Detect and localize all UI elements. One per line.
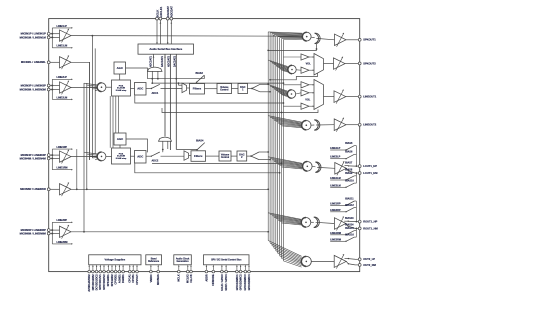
mix bus bundle	[267, 32, 269, 241]
row5 mixer	[268, 157, 302, 164]
block DAC2	[237, 151, 247, 161]
svg-text:BIAS7: BIAS7	[345, 161, 353, 164]
svg-text:DGND1: DGND1	[122, 274, 125, 283]
pin AVDD1/AVDD2	[88, 265, 90, 271]
input PGA amp IN2	[50, 61, 59, 63]
svg-text:LINE1LM: LINE1LM	[330, 177, 340, 180]
wire digital cross 1	[152, 82, 283, 84]
pin CPCA1	[129, 265, 131, 271]
svg-text:DACDAT2: DACDAT2	[173, 55, 176, 67]
pin LRCLK1	[159, 17, 162, 20]
left bus line 4	[91, 36, 93, 158]
svg-text:MICBIAS: MICBIAS	[157, 274, 160, 285]
input PGA amp IN4	[50, 154, 59, 156]
svg-text:MICIN6P / LINEIN6P: MICIN6P / LINEIN6P	[21, 228, 46, 232]
svg-text:BIAS6: BIAS6	[345, 151, 353, 154]
block Filters1	[190, 84, 205, 95]
svg-text:0.5dB step: 0.5dB step	[116, 157, 127, 160]
input pin IN5	[47, 188, 50, 191]
pin MICBIAS	[157, 265, 159, 271]
svg-text:Voltage Supplies: Voltage Supplies	[104, 258, 125, 262]
block ADC1	[135, 83, 147, 96]
svg-text:BIAS8: BIAS8	[345, 168, 353, 171]
output driver row4	[334, 119, 346, 131]
svg-text:Control: Control	[221, 156, 230, 159]
bypass collector top row5	[355, 146, 357, 167]
svg-text:BIAS4: BIAS4	[196, 140, 204, 143]
output driver row6	[334, 218, 346, 230]
svg-text:Control: Control	[220, 89, 229, 92]
block Volume Control 2	[219, 151, 231, 161]
pin ADDR	[205, 265, 207, 271]
svg-text:LINE2LM: LINE2LM	[330, 184, 340, 187]
playback mux 2	[184, 151, 189, 161]
svg-text:0.5dB step: 0.5dB step	[116, 89, 127, 92]
svg-text:GPIO1/DMIC1: GPIO1/DMIC1	[236, 274, 239, 291]
pin GPIO1/DMIC1	[236, 265, 238, 271]
svg-text:LINE2RM: LINE2RM	[57, 241, 68, 244]
svg-text:LINE1LM: LINE1LM	[57, 45, 68, 48]
block U1 Audio Serial Bus Interface	[138, 44, 194, 54]
bypass collector top row6	[355, 201, 357, 222]
volume crescent row6	[314, 217, 318, 227]
svg-text:VOL: VOL	[306, 62, 312, 65]
svg-text:SPKGND1: SPKGND1	[107, 274, 110, 287]
row3 input amp c	[283, 105, 301, 107]
svg-text:ADC: ADC	[137, 155, 143, 159]
row7 mixer	[268, 241, 301, 257]
pin BCLK	[156, 17, 159, 20]
svg-text:BIAS15: BIAS15	[345, 227, 354, 230]
pin SCLK / GPIO3	[221, 265, 223, 271]
cross wires between channels	[109, 96, 111, 148]
wire AGC1 to mux	[126, 68, 148, 79]
wire bypass join vertical	[76, 149, 78, 189]
wire amp5 output	[71, 188, 268, 190]
output driver row7	[334, 255, 346, 267]
svg-text:LINEOUT1: LINEOUT1	[363, 95, 377, 99]
block SPI I2C Serial Control Bus	[204, 255, 250, 265]
svg-text:MICIN2L / LINEIN2L: MICIN2L / LINEIN2L	[21, 60, 46, 64]
svg-text:MICIN6M / LINEIN6M: MICIN6M / LINEIN6M	[20, 232, 47, 236]
output driver row5	[335, 163, 347, 175]
pin VMIDC	[150, 265, 152, 271]
svg-text:LINEOUT2: LINEOUT2	[363, 123, 377, 127]
svg-text:BCLK: BCLK	[155, 10, 159, 18]
DAC1 output switches	[248, 88, 252, 90]
svg-text:GPIO4/DMIC4: GPIO4/DMIC4	[248, 274, 251, 291]
block Filters2	[191, 151, 206, 162]
wire ADCDAT2 to interface	[164, 54, 166, 136]
switch ADC1 out	[146, 88, 151, 90]
pin CPVDD1	[115, 265, 117, 271]
svg-text:CPVOUT: CPVOUT	[136, 274, 139, 285]
svg-text:OUT2_LP: OUT2_LP	[363, 257, 375, 261]
svg-text:MICIN3M / LINEIN3M: MICIN3M / LINEIN3M	[20, 88, 47, 92]
row2 tap down	[270, 73, 317, 80]
mix bus top fan to mixer SPK1	[268, 32, 302, 33]
row4 mixer	[268, 116, 302, 123]
pin SPKVDD1/V1	[99, 265, 101, 271]
svg-text:OUT2_RM: OUT2_RM	[363, 263, 376, 267]
svg-text:SPKGND2: SPKGND2	[111, 274, 114, 287]
pin MONOOUT_P	[358, 258, 361, 261]
left bus line 3	[89, 62, 91, 160]
svg-text:BIAS16: BIAS16	[345, 234, 354, 237]
pin HPOUT_RM	[358, 227, 361, 230]
wire bypass vertical	[51, 149, 53, 170]
left bus line 5	[94, 48, 96, 154]
svg-text:LINE1RM: LINE1RM	[57, 167, 68, 170]
block Voltage Supplies	[89, 255, 141, 265]
input pins IN1	[47, 32, 50, 35]
pin MCLK2	[187, 265, 189, 271]
svg-text:ADC2: ADC2	[152, 160, 159, 163]
svg-text:LINE1RP: LINE1RP	[330, 202, 341, 205]
svg-text:BIAS10: BIAS10	[345, 180, 354, 183]
wire amp2 output	[71, 62, 90, 160]
svg-text:GPIO3/DMIC3: GPIO3/DMIC3	[244, 274, 247, 291]
wire DACDAT2 down	[175, 54, 177, 149]
svg-text:ADCDAT2: ADCDAT2	[167, 55, 170, 67]
pin MONOOUT_M	[358, 264, 361, 267]
block AGC1	[114, 62, 126, 74]
svg-text:Audio Serial Bus Interface: Audio Serial Bus Interface	[149, 47, 182, 51]
svg-text:LINE2LM: LINE2LM	[57, 96, 68, 99]
svg-text:AGND1: AGND1	[118, 274, 121, 283]
input pins IN4	[47, 154, 50, 157]
block AGC2	[114, 133, 126, 145]
svg-text:BIAS11: BIAS11	[345, 197, 354, 200]
output driver row2	[334, 58, 346, 69]
pin CPCB1	[132, 265, 134, 271]
pin LINEOUT1	[358, 95, 361, 98]
pin ADCDAT	[170, 17, 173, 20]
playback mux 1	[182, 83, 187, 93]
svg-text:LINE1RP: LINE1RP	[57, 146, 68, 149]
svg-text:MCLK: MCLK	[178, 274, 181, 281]
wire amp6 output	[71, 231, 268, 233]
output driver row3	[334, 91, 346, 103]
svg-text:VOL: VOL	[305, 99, 311, 102]
svg-text:ADC: ADC	[137, 87, 143, 91]
input pin IN2	[47, 61, 50, 64]
block PGA1	[112, 80, 131, 96]
pin CIFMODE	[212, 265, 214, 271]
pin MCLK	[178, 265, 180, 271]
svg-text:DCVDD1/DC2: DCVDD1/DC2	[96, 274, 99, 291]
svg-text:LINE2RP: LINE2RP	[57, 219, 68, 222]
output mux row2	[314, 54, 324, 76]
svg-text:SPKVDD1/V1: SPKVDD1/V1	[99, 274, 102, 290]
pin GPIO4/DMIC4	[248, 265, 250, 271]
row1 tap down	[268, 44, 316, 50]
wire digital cross 2	[152, 162, 282, 164]
svg-text:MICIN3P / LINEIN3P: MICIN3P / LINEIN3P	[21, 83, 46, 87]
svg-text:CPVDD1: CPVDD1	[115, 274, 118, 285]
svg-text:VMIDC: VMIDC	[150, 274, 153, 282]
left bus line 2	[86, 83, 88, 189]
input PGA amp IN5	[50, 188, 59, 190]
block PGA2	[112, 148, 131, 164]
input pins IN3	[47, 84, 50, 87]
svg-text:Reference: Reference	[148, 261, 160, 263]
input PGA amp IN1	[50, 33, 59, 35]
output mux row3	[314, 80, 324, 110]
svg-text:DACDAT: DACDAT	[166, 6, 170, 18]
input PGA amp IN3	[50, 85, 59, 87]
pin DGND1	[122, 265, 124, 271]
svg-text:AVDD1/AVDD2: AVDD1/AVDD2	[88, 274, 91, 292]
wire amp4 output to mixer2	[71, 156, 97, 158]
pin SPKVDD2/V2	[103, 265, 105, 271]
volume crescent row4	[314, 120, 318, 130]
svg-text:LINE2LP: LINE2LP	[57, 76, 68, 79]
input PGA amp IN6	[50, 229, 59, 231]
input mixer MIX1	[97, 83, 106, 92]
svg-text:DBVDD1/DB2: DBVDD1/DB2	[92, 274, 95, 291]
svg-text:SPKOUT1: SPKOUT1	[363, 38, 376, 42]
pin HPOUT_LM	[358, 172, 361, 175]
svg-text:MICIN1P / LINEIN1P: MICIN1P / LINEIN1P	[21, 32, 46, 36]
svg-text:ROUT1_HM: ROUT1_HM	[363, 226, 378, 230]
wire bypass vertical	[51, 222, 53, 244]
row3 input amp b	[301, 90, 309, 96]
pin HPOUT_RP	[358, 220, 361, 223]
row2 mixer	[268, 60, 288, 67]
svg-text:CIFMODE: CIFMODE	[212, 274, 215, 286]
pin LINEOUT2	[358, 123, 361, 126]
input pins IN6	[47, 229, 50, 232]
DAC2 output switches	[247, 155, 251, 157]
pin GPIO3/DMIC3	[244, 265, 246, 271]
svg-text:MICIN4M / LINEIN4M: MICIN4M / LINEIN4M	[20, 156, 47, 160]
block Band Reference	[146, 255, 162, 265]
bypass collector bottom row5	[355, 173, 357, 183]
wire digital loop 2	[162, 108, 318, 113]
row3 input amp a	[283, 84, 301, 86]
output mixer row1	[302, 32, 311, 41]
pin CPVOUT	[136, 265, 138, 271]
pin SPKGND2	[111, 265, 113, 271]
row3 mixer	[268, 85, 287, 92]
svg-text:AGC: AGC	[117, 66, 123, 70]
input mixer MIX2	[97, 152, 106, 161]
wire AGC2 to switch	[126, 139, 148, 152]
pin FLLCK	[190, 265, 192, 271]
ADC source mux dome1	[148, 67, 163, 71]
svg-text:ADCDAT: ADCDAT	[170, 6, 174, 18]
pin SDAT / GPIO4	[225, 265, 227, 271]
row2 input amp b	[301, 67, 309, 73]
wire bypass vertical	[51, 28, 53, 48]
pin DBVDD1/DB2	[92, 265, 94, 271]
svg-text:LINE2RM: LINE2RM	[330, 238, 341, 241]
svg-text:ADCDAT1: ADCDAT1	[149, 55, 152, 67]
svg-text:SCLK / GPIO3: SCLK / GPIO3	[221, 274, 224, 291]
svg-text:MICIN5R / LINEIN5R: MICIN5R / LINEIN5R	[20, 187, 46, 191]
svg-text:ROUT1_HP: ROUT1_HP	[363, 220, 377, 224]
svg-text:BIAS13: BIAS13	[345, 217, 354, 220]
svg-text:Filters: Filters	[193, 87, 202, 91]
pin SPKGND1	[107, 265, 109, 271]
svg-text:FLLCK: FLLCK	[190, 274, 193, 282]
svg-text:SPI / I2C Serial Control Bus: SPI / I2C Serial Control Bus	[211, 259, 242, 262]
wire ADCDAT1 to interface	[153, 54, 155, 67]
ADC source mux dome2	[159, 137, 172, 141]
pin DACDAT	[166, 17, 169, 20]
block Volume Control 1	[217, 84, 232, 94]
output driver row1	[335, 34, 347, 45]
pin SPKOUT2	[358, 62, 361, 65]
volume crescent row1	[315, 33, 319, 43]
svg-text:DACDAT1: DACDAT1	[161, 55, 164, 67]
svg-text:LRCLK1: LRCLK1	[159, 6, 163, 17]
svg-text:GPIO2/DMIC2: GPIO2/DMIC2	[240, 274, 243, 291]
switch ADC2 out	[146, 155, 151, 157]
pin AGND1	[118, 265, 120, 271]
svg-text:Generation: Generation	[176, 260, 189, 263]
input mixer 2 fan	[84, 152, 97, 154]
svg-text:LINE1LP: LINE1LP	[57, 25, 68, 28]
svg-text:CPCB1: CPCB1	[132, 274, 135, 283]
svg-text:SPKVDD2/V2: SPKVDD2/V2	[103, 274, 106, 290]
wire dome1 bus	[148, 78, 205, 80]
wire amp3 output to mixer1	[71, 87, 97, 89]
bypass collector bottom row6	[355, 228, 357, 237]
svg-text:BIAS12: BIAS12	[345, 204, 354, 207]
pin HPOUT_LP	[358, 165, 361, 168]
block Audio Clock Generation	[174, 255, 192, 265]
block ADC2	[135, 151, 147, 164]
svg-text:MICIN1M / LINEIN1M: MICIN1M / LINEIN1M	[20, 35, 47, 39]
left bus line 1	[83, 83, 85, 232]
svg-text:ADDR: ADDR	[205, 274, 208, 281]
svg-text:BIAS5: BIAS5	[345, 142, 353, 145]
svg-text:MICIN4P / LINEIN4P: MICIN4P / LINEIN4P	[21, 153, 46, 157]
svg-text:LINE2LP: LINE2LP	[330, 156, 340, 159]
wire bypass vertical	[51, 79, 53, 99]
svg-text:LINE2RP: LINE2RP	[330, 209, 341, 212]
pin SPKOUT1	[358, 38, 361, 41]
wire amp1 output to record bundle	[71, 35, 302, 38]
chip boundary box	[49, 19, 360, 272]
svg-text:ADC1: ADC1	[152, 92, 159, 95]
svg-text:BIAS2: BIAS2	[196, 72, 204, 75]
svg-text:SDAT / GPIO4: SDAT / GPIO4	[225, 274, 228, 291]
wire DACDAT1 down	[169, 54, 171, 150]
volume crescent row5	[315, 162, 319, 172]
svg-text:Filters: Filters	[194, 154, 203, 158]
pin DCVDD1/DC2	[96, 265, 98, 271]
wire ADC2 loop	[135, 163, 280, 173]
block DAC1	[238, 84, 248, 94]
svg-text:LOUT1_HP: LOUT1_HP	[363, 164, 377, 168]
svg-text:AGC: AGC	[117, 137, 123, 141]
svg-text:SPKOUT2: SPKOUT2	[363, 61, 376, 65]
row6 mixer	[268, 213, 301, 220]
svg-text:LINE1LP: LINE1LP	[330, 147, 340, 150]
row2 input amp a	[283, 56, 301, 58]
pin GPIO2/DMIC2	[240, 265, 242, 271]
input mixer 1 fan	[84, 83, 97, 85]
wire ADC1 loop	[135, 96, 284, 104]
svg-text:LINE1RM: LINE1RM	[330, 232, 341, 235]
svg-text:LOUT1_HM: LOUT1_HM	[363, 171, 378, 175]
svg-text:BIAS9: BIAS9	[345, 172, 353, 175]
